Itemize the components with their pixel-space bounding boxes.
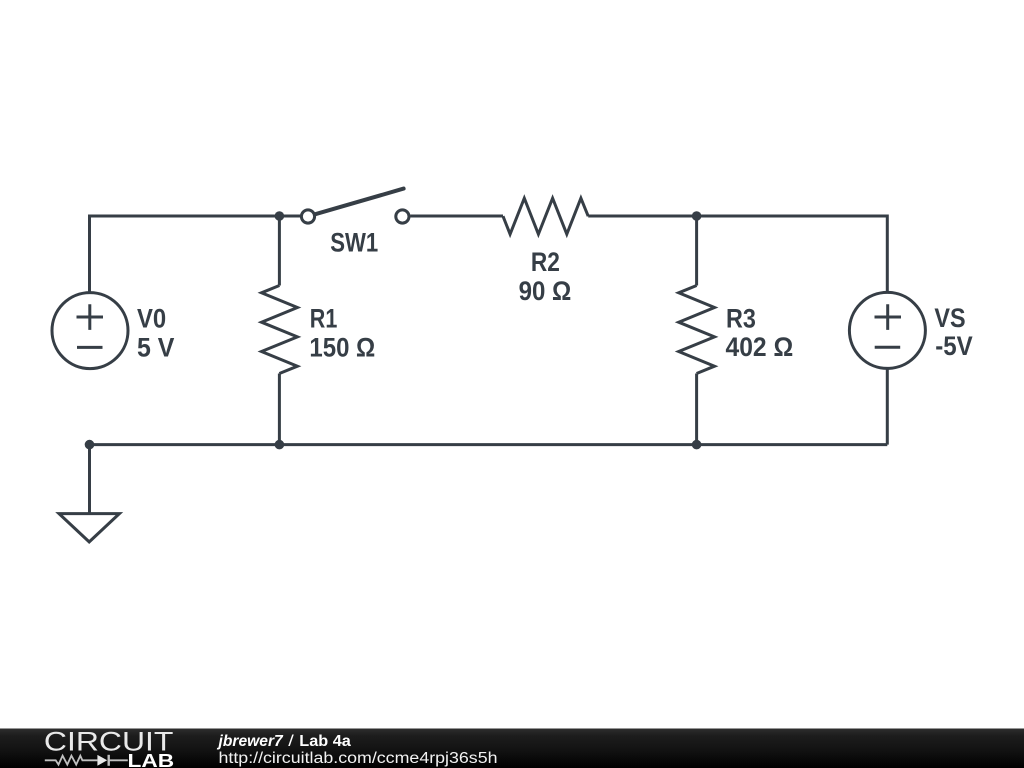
svg-text:402 Ω: 402 Ω bbox=[726, 332, 794, 362]
switch SW1 left contact circle bbox=[301, 210, 314, 223]
switch SW1 lever bbox=[315, 189, 403, 215]
V0 plus sign bbox=[77, 304, 104, 330]
svg-text:SW1: SW1 bbox=[330, 228, 378, 258]
V0 minus sign bbox=[77, 346, 103, 349]
resistor R3 bbox=[679, 286, 715, 374]
wire R2 to top-right corner and down to VS bbox=[588, 216, 887, 292]
svg-text:V0: V0 bbox=[137, 303, 166, 333]
node junction bottom ground bbox=[85, 440, 95, 450]
ground symbol bbox=[59, 514, 119, 542]
footer bar bbox=[0, 729, 1024, 768]
resistor R1 bbox=[262, 286, 298, 374]
svg-text:LAB: LAB bbox=[128, 750, 175, 768]
VS minus sign bbox=[875, 346, 901, 349]
voltage source VS circle bbox=[849, 292, 925, 368]
svg-text:R2: R2 bbox=[531, 247, 560, 277]
node junction top R1 bbox=[275, 211, 285, 221]
logo resistor-diode wire bbox=[45, 755, 128, 766]
wire R1 top lead bbox=[278, 216, 281, 286]
node junction bottom R3 bbox=[692, 440, 702, 450]
svg-text:jbrewer7 / Lab 4a: jbrewer7 / Lab 4a bbox=[216, 733, 351, 750]
logo diode triangle bbox=[97, 755, 107, 766]
node junction bottom R1 bbox=[275, 440, 285, 450]
wire bottom rail bbox=[90, 443, 888, 446]
wire VS bottom lead bbox=[886, 369, 889, 445]
wire R3 bottom lead bbox=[695, 374, 698, 445]
resistor R2 bbox=[503, 198, 588, 234]
switch SW1 right contact circle bbox=[396, 210, 409, 223]
svg-text:VS: VS bbox=[934, 303, 965, 333]
wire R3 top lead bbox=[695, 216, 698, 286]
voltage source V0 circle bbox=[52, 293, 128, 369]
wire top-left from V0 top to switch bbox=[90, 216, 302, 292]
svg-text:150 Ω: 150 Ω bbox=[309, 333, 375, 363]
svg-text:http://circuitlab.com/ccme4rpj: http://circuitlab.com/ccme4rpj36s5h bbox=[219, 750, 498, 767]
node junction top R3 bbox=[692, 211, 702, 221]
wire ground lead bbox=[88, 445, 91, 513]
svg-text:R1: R1 bbox=[310, 303, 338, 333]
svg-text:-5V: -5V bbox=[935, 331, 973, 361]
svg-text:90 Ω: 90 Ω bbox=[519, 276, 572, 306]
svg-text:5 V: 5 V bbox=[137, 332, 175, 362]
wire switch to R2 bbox=[410, 215, 503, 218]
wire R1 bottom lead bbox=[278, 374, 281, 445]
VS plus sign bbox=[875, 304, 902, 330]
svg-text:R3: R3 bbox=[726, 303, 756, 333]
